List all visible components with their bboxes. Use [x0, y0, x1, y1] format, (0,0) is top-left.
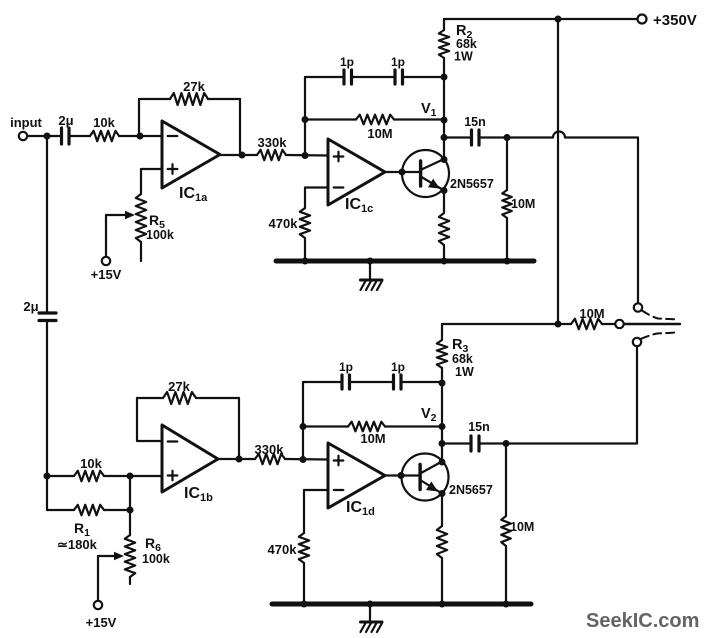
wire IC1a feedback right	[239, 99, 241, 155]
svg-text:SeekIC.com: SeekIC.com	[586, 610, 699, 632]
junction Q2 emitter	[439, 490, 446, 497]
label 10M shunt (bottom)	[510, 520, 534, 534]
svg-text:2μ: 2μ	[58, 113, 73, 128]
label input	[10, 115, 42, 130]
resistor 10k (IC1a input)	[90, 131, 119, 141]
label +15V (top)	[91, 267, 122, 282]
dashed contact path upper	[642, 311, 679, 320]
svg-text:330k: 330k	[255, 442, 285, 457]
Q2 emitter lead	[421, 481, 442, 494]
potentiometer R5 100k	[136, 194, 146, 261]
transistor Q2 2N5657 body	[402, 454, 449, 501]
resistor R1 180k	[47, 505, 130, 515]
Q1 emitter lead	[422, 177, 445, 191]
wire 15n to lower contact	[481, 346, 638, 443]
IC1a minus pin	[168, 135, 178, 137]
svg-text:1p: 1p	[391, 55, 405, 69]
junction 470k/ground (top)	[302, 258, 309, 265]
terminal +15V (bottom)	[94, 601, 102, 609]
junction 10M left (top)	[302, 116, 309, 123]
op-amp IC1c	[328, 139, 385, 205]
label R3	[452, 337, 468, 355]
label 330k (top)	[258, 135, 288, 150]
svg-text:1p: 1p	[339, 360, 353, 374]
wire IC1a feedback left	[138, 99, 140, 136]
wire wiper to +15V (bottom)	[97, 556, 99, 601]
label 1p second (bottom)	[391, 360, 405, 374]
junction V1 node	[441, 117, 448, 124]
capacitor 2u (top)	[62, 128, 70, 144]
op-amp IC1d	[328, 443, 385, 508]
label node V2	[421, 406, 437, 424]
junction emitter-res/ground (bottom)	[439, 601, 446, 608]
label 2N5657 (bottom)	[449, 483, 493, 497]
resistor R3 68k 1W	[437, 324, 447, 462]
label 27k (bottom)	[168, 379, 190, 394]
junction Q2 collector	[439, 459, 446, 466]
wire output to right	[624, 323, 680, 325]
label 1p second (top)	[391, 55, 405, 69]
junction V2 node	[439, 423, 446, 430]
svg-text:10M: 10M	[367, 126, 392, 141]
junction IC1d out	[398, 472, 405, 479]
op-amp IC1b	[162, 425, 218, 492]
wire IC1a plus to R5	[141, 169, 162, 194]
label R1	[74, 520, 90, 539]
IC1c plus pin	[334, 152, 344, 162]
wire 1p to V2 node	[403, 381, 443, 383]
IC1b plus pin	[168, 471, 178, 481]
wire IC1c out to Q1 base	[385, 171, 419, 173]
label R5	[149, 212, 165, 231]
wire 15n to upper contact with hop	[481, 132, 639, 304]
ground symbol (top)	[361, 261, 383, 290]
junction 10M/ground (bottom)	[503, 601, 510, 608]
wire 10M to output terminal	[602, 323, 615, 325]
label IC1b	[184, 485, 213, 504]
svg-text:27k: 27k	[183, 79, 205, 94]
resistor 10M feedback (top)	[305, 115, 444, 125]
label IC1c	[345, 196, 373, 215]
ground bus (bottom)	[272, 602, 531, 607]
IC1a plus pin	[168, 164, 178, 174]
svg-text:10M: 10M	[510, 520, 534, 534]
resistor 10M shunt (top)	[502, 138, 512, 262]
resistor Q1 emitter	[439, 191, 449, 262]
transistor Q1 2N5657 body	[402, 150, 449, 197]
svg-text:input: input	[10, 115, 42, 130]
resistor Q2 emitter	[437, 494, 447, 605]
junction IC1c out	[399, 169, 406, 176]
label 470k (top)	[269, 216, 299, 231]
R5 wiper arrow	[106, 211, 135, 219]
svg-text:10M: 10M	[511, 197, 535, 211]
wire 1p to V1 node	[404, 76, 444, 78]
svg-text:27k: 27k	[168, 379, 190, 394]
label +15V (bottom)	[86, 615, 117, 630]
resistor 10k (IC1b input)	[47, 471, 162, 481]
wire 330k to IC1d plus	[285, 458, 328, 461]
junction Q1 emitter	[441, 187, 448, 194]
wire IC1b feedback right	[238, 398, 240, 459]
svg-text:1W: 1W	[454, 50, 473, 64]
terminal output	[615, 320, 623, 328]
R6 wiper arrow	[98, 552, 124, 560]
svg-text:2N5657: 2N5657	[450, 177, 494, 191]
wire V1 to 15n cap	[444, 136, 470, 138]
svg-text:100k: 100k	[146, 228, 174, 242]
svg-text:330k: 330k	[258, 135, 288, 150]
capacitor 1p second (bottom)	[394, 375, 402, 389]
wire between 1p caps (bottom)	[351, 381, 392, 383]
resistor 10M feedback (bottom)	[303, 422, 442, 432]
wire between 1p caps (top)	[353, 76, 394, 78]
wire IC1d out to Q2 base	[385, 474, 419, 476]
junction 10M left (bottom)	[300, 423, 307, 430]
svg-text:470k: 470k	[269, 216, 299, 231]
label 1W (R3)	[455, 365, 474, 379]
label 1W (R2)	[454, 50, 473, 64]
junction 10k left (bottom)	[44, 473, 51, 480]
junction IC1c plus node	[302, 152, 309, 159]
wire +350V feed down	[557, 19, 559, 324]
terminal +350V	[638, 15, 647, 24]
capacitor 1p second (top)	[395, 70, 403, 84]
wire IC1d feedback left vertical	[303, 382, 341, 460]
label 2u (bottom)	[23, 299, 38, 314]
junction input node	[44, 133, 51, 140]
potentiometer R6 100k	[125, 510, 135, 584]
junction mid rail/feed	[555, 321, 562, 328]
IC1d minus pin	[334, 489, 344, 491]
wire V2 to 15n cap	[442, 442, 469, 444]
junction 1p/R2 node	[441, 74, 448, 81]
wire IC1c minus to 470k	[305, 188, 328, 209]
wire mid rail	[442, 323, 571, 325]
contact terminal lower	[633, 338, 641, 346]
junction gnd stem (bottom)	[367, 601, 374, 608]
wire 10k to IC1a minus	[119, 135, 162, 137]
wire R1 to plus node	[129, 476, 131, 510]
wire 2u to 10k node (left)	[46, 322, 48, 510]
junction 15n branch (top)	[441, 134, 448, 141]
junction R1 right	[127, 507, 134, 514]
wire IC1d minus to 470k	[304, 490, 328, 533]
label 10M feedback (bottom)	[360, 431, 385, 446]
label 27k (top)	[183, 79, 205, 94]
svg-text:10M: 10M	[579, 306, 604, 321]
junction 470k/ground (bottom)	[301, 601, 308, 608]
wire IC1b out	[218, 458, 255, 460]
junction gnd stem (top)	[367, 258, 374, 265]
svg-text:10M: 10M	[360, 431, 385, 446]
junction IC1b plus node	[127, 473, 134, 480]
op-amp IC1a	[162, 121, 220, 188]
wire IC1c feedback left vertical	[305, 77, 343, 156]
dashed contact path lower	[641, 333, 678, 339]
svg-text:1p: 1p	[340, 55, 354, 69]
label R6	[145, 535, 161, 554]
label 10k (top)	[93, 115, 115, 130]
label 1p first (bottom)	[339, 360, 353, 374]
label 68k (R3)	[452, 352, 473, 366]
IC1d plus pin	[334, 456, 344, 466]
contact terminal upper	[634, 303, 642, 311]
wire IC1b minus to feedback	[137, 398, 162, 441]
ground bus (top)	[276, 259, 534, 264]
capacitor 1p first (top)	[344, 70, 352, 84]
resistor 470k (bottom)	[299, 533, 309, 604]
label node V1	[421, 101, 437, 119]
resistor 470k (top)	[300, 208, 310, 261]
label 10M shunt (top)	[511, 197, 535, 211]
Q1 base bar	[419, 161, 422, 186]
ground symbol (bottom)	[361, 604, 383, 632]
junction IC1b output	[236, 456, 243, 463]
wire 330k to IC1c plus	[286, 154, 328, 157]
svg-text:+350V: +350V	[653, 12, 697, 29]
node +350V rail wire	[444, 18, 638, 20]
label 180k (R1)	[57, 537, 98, 552]
resistor 27k (IC1a)	[139, 93, 240, 105]
svg-text:2μ: 2μ	[23, 299, 38, 314]
label 2N5657 (top)	[450, 177, 494, 191]
label 100k (R6)	[142, 552, 170, 566]
IC1c minus pin	[334, 186, 344, 188]
Q2 base bar	[418, 465, 421, 490]
svg-text:100k: 100k	[142, 552, 170, 566]
junction rail/x558	[555, 16, 562, 23]
wire 2u to 10k	[71, 135, 90, 137]
junction IC1a output	[239, 152, 246, 159]
label R2	[456, 23, 472, 41]
svg-text:470k: 470k	[268, 542, 298, 557]
resistor 27k (IC1b)	[137, 392, 239, 404]
IC1b minus pin	[168, 440, 178, 442]
label 100k (R5)	[146, 228, 174, 242]
junction Q1 collector	[441, 156, 448, 163]
resistor 330k (bottom)	[255, 454, 285, 464]
terminal input	[19, 132, 27, 140]
label 15n (bottom)	[468, 420, 490, 434]
label 10M feedback (top)	[367, 126, 392, 141]
Q1 collector lead	[422, 159, 445, 170]
label 10M output	[579, 306, 604, 321]
label 68k (R2)	[456, 37, 477, 51]
wire input down-left	[46, 136, 48, 312]
svg-text:1p: 1p	[391, 360, 405, 374]
svg-text:10k: 10k	[80, 456, 102, 471]
capacitor 2u (bottom)	[39, 313, 56, 321]
label 470k (bottom)	[268, 542, 298, 557]
label 15n (top)	[464, 115, 486, 129]
junction emitter-res/ground (top)	[441, 258, 448, 265]
junction 1p/R3 node	[439, 380, 446, 387]
label IC1d	[346, 499, 375, 518]
svg-text:≃180k: ≃180k	[57, 537, 98, 552]
wire wiper to +15V (top)	[105, 215, 107, 257]
junction IC1d plus node	[300, 456, 307, 463]
junction 10M/ground (top)	[504, 258, 511, 265]
svg-text:15n: 15n	[464, 115, 486, 129]
terminal +15V (top)	[102, 257, 110, 265]
Q2 collector lead	[421, 462, 442, 474]
resistor 330k (top)	[257, 150, 286, 160]
svg-text:+15V: +15V	[86, 615, 117, 630]
svg-text:+15V: +15V	[91, 267, 122, 282]
svg-text:2N5657: 2N5657	[449, 483, 493, 497]
junction 15n/10M (bottom)	[503, 440, 510, 447]
watermark SeekIC.com	[586, 610, 699, 632]
junction 15n branch (bottom)	[439, 440, 446, 447]
resistor 10M shunt (bottom)	[501, 444, 511, 605]
capacitor 1p first (bottom)	[342, 375, 350, 389]
svg-text:1W: 1W	[455, 365, 474, 379]
capacitor 15n (top)	[472, 130, 480, 145]
label 2u (top)	[58, 113, 73, 128]
svg-text:15n: 15n	[468, 420, 490, 434]
wire input to 2u cap	[27, 135, 60, 137]
svg-text:68k: 68k	[452, 352, 473, 366]
resistor R2 68k 1W	[439, 19, 449, 160]
junction IC1a minus node	[137, 133, 144, 140]
label +350V	[653, 12, 697, 29]
label IC1a	[179, 185, 208, 204]
capacitor 15n (bottom)	[471, 436, 479, 451]
svg-text:10k: 10k	[93, 115, 115, 130]
wire IC1a out	[220, 154, 257, 156]
label 10k (bottom)	[80, 456, 102, 471]
resistor 10M output	[571, 319, 602, 329]
junction 15n/10M (top)	[504, 134, 511, 141]
label 1p first (top)	[340, 55, 354, 69]
label 330k (bottom)	[255, 442, 285, 457]
